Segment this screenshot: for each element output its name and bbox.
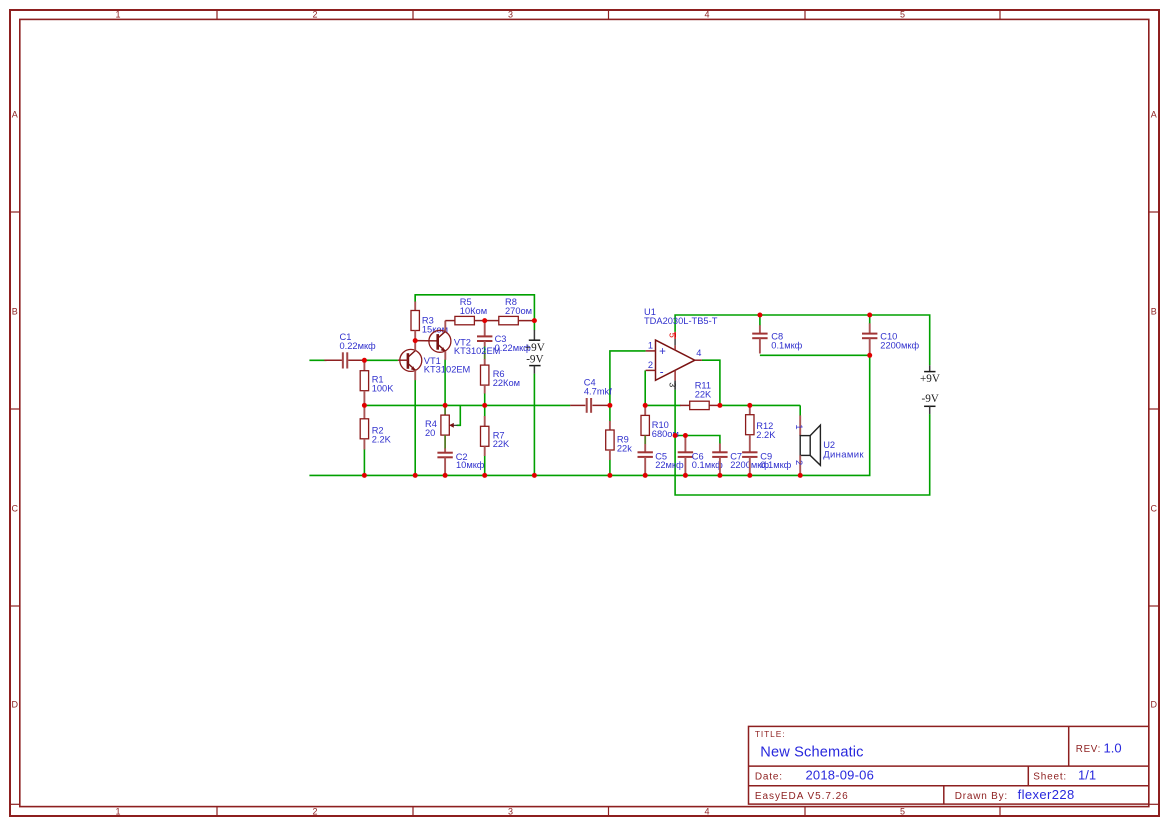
svg-text:+: +: [659, 346, 666, 358]
capacitor C2: [444, 448, 446, 452]
svg-text:2018-09-06: 2018-09-06: [806, 768, 875, 783]
wire right -9V flag down: [675, 390, 930, 495]
svg-text:0.1мкф: 0.1мкф: [760, 460, 791, 470]
wire input stub: [309, 359, 326, 361]
svg-text:2: 2: [648, 360, 653, 370]
resistor R9: [609, 421, 611, 430]
resistor R12: [749, 405, 751, 414]
capacitor C1: [324, 359, 342, 361]
wire C6 C7 top branch: [675, 436, 720, 444]
wire C10 top sliver: [869, 315, 871, 324]
svg-text:5: 5: [667, 333, 677, 338]
svg-text:flexer228: flexer228: [1018, 787, 1075, 802]
svg-text:2: 2: [312, 10, 317, 20]
svg-text:REV:: REV:: [1076, 744, 1101, 755]
svg-text:3: 3: [668, 382, 678, 387]
wire VT1 emitter down: [414, 380, 416, 476]
svg-text:C: C: [1151, 503, 1158, 513]
svg-text:3: 3: [508, 10, 513, 20]
svg-text:0.1мкф: 0.1мкф: [692, 460, 723, 470]
op-amp U1: [656, 340, 695, 380]
power flag +9V left: [533, 330, 535, 340]
svg-text:1: 1: [115, 806, 120, 816]
svg-text:1/1: 1/1: [1078, 768, 1096, 783]
wire R2 bottom: [363, 449, 365, 475]
wire R6 to mid rail: [484, 393, 486, 405]
resistor R3: [414, 295, 416, 302]
resistor R10: [644, 405, 646, 415]
svg-text:A: A: [1151, 109, 1157, 119]
resistor R5: [445, 320, 455, 322]
capacitor C5: [644, 444, 646, 452]
svg-text:1: 1: [648, 341, 653, 351]
capacitor C3: [484, 321, 486, 337]
svg-text:D: D: [11, 700, 18, 710]
svg-text:KT3102EM: KT3102EM: [424, 365, 471, 375]
wire top-right +9V rail: [675, 315, 930, 365]
svg-text:+9V: +9V: [920, 373, 940, 385]
wire mid rail left: [364, 404, 570, 406]
svg-text:2200мкф: 2200мкф: [880, 341, 919, 351]
svg-text:New Schematic: New Schematic: [760, 744, 863, 760]
svg-text:5: 5: [900, 806, 905, 816]
svg-text:100K: 100K: [372, 384, 395, 394]
resistor R1: [363, 362, 365, 371]
wire R9 to bottom rail: [609, 460, 611, 476]
svg-text:+9V: +9V: [525, 342, 545, 354]
capacitor C7: [719, 443, 721, 452]
svg-text:20: 20: [425, 428, 435, 438]
wire VT2 emitter down: [444, 360, 446, 406]
svg-text:4: 4: [704, 10, 709, 20]
svg-text:0.22мкф: 0.22мкф: [340, 341, 377, 351]
svg-text:4: 4: [704, 806, 709, 816]
wire output down to R11 node: [702, 360, 720, 405]
frame side ruler ticks: [10, 212, 1159, 804]
svg-text:1.0: 1.0: [1104, 740, 1122, 755]
svg-text:Date:: Date:: [755, 771, 783, 782]
svg-text:5: 5: [900, 10, 905, 20]
power flag +9V right: [929, 365, 931, 371]
svg-text:22K: 22K: [493, 439, 510, 449]
wire +9V flag left lead: [533, 321, 535, 331]
title block box: [749, 726, 1149, 804]
wire junction to R11 left: [645, 404, 680, 406]
svg-text:4: 4: [696, 348, 701, 358]
wire -9V flag left to bottom rail: [533, 374, 535, 476]
svg-text:Drawn By:: Drawn By:: [955, 791, 1008, 802]
svg-text:-9V: -9V: [921, 393, 938, 405]
svg-text:TDA2030L-TB5-T: TDA2030L-TB5-T: [644, 316, 718, 326]
resistor R7: [484, 416, 486, 426]
svg-text:4.7mkf: 4.7mkf: [584, 387, 612, 397]
svg-text:10Ком: 10Ком: [460, 306, 487, 316]
svg-text:1: 1: [115, 10, 120, 20]
svg-text:D: D: [1151, 700, 1158, 710]
svg-text:EasyEDA V5.7.26: EasyEDA V5.7.26: [755, 791, 849, 802]
resistor R2: [363, 405, 365, 418]
transistor VT1: [400, 349, 422, 371]
capacitor C8: [759, 325, 761, 333]
svg-text:-9V: -9V: [526, 354, 543, 366]
svg-text:2: 2: [794, 460, 804, 465]
capacitor C10: [869, 323, 871, 333]
wire VT1 collector junction to VT2 base: [415, 340, 438, 342]
capacitor C9: [742, 451, 757, 453]
wire C8 bottom to C10 bottom: [760, 354, 870, 356]
svg-text:2.2K: 2.2K: [372, 434, 392, 444]
svg-text:22K: 22K: [695, 390, 712, 400]
svg-text:22Ком: 22Ком: [493, 378, 520, 388]
svg-text:270ом: 270ом: [505, 306, 532, 316]
capacitor C6: [684, 436, 686, 453]
frame top ruler ticks: [217, 10, 1000, 816]
svg-text:Sheet:: Sheet:: [1033, 771, 1067, 782]
svg-text:1: 1: [794, 424, 804, 429]
wire R7 top: [484, 405, 486, 416]
wire R4 wiper stub: [457, 405, 461, 425]
resistor R11: [680, 404, 690, 406]
svg-text:2.2K: 2.2K: [756, 430, 776, 440]
svg-text:0.1мкф: 0.1мкф: [771, 341, 802, 351]
wire C3 to R6: [484, 346, 486, 352]
svg-text:KT3102EM: KT3102EM: [454, 346, 501, 356]
svg-text:22k: 22k: [617, 443, 632, 453]
svg-text:22мкф: 22мкф: [655, 460, 684, 470]
svg-text:B: B: [12, 306, 18, 316]
wire C4 junction down to R9: [609, 405, 611, 421]
capacitor C4: [570, 404, 585, 406]
svg-text:2: 2: [312, 806, 317, 816]
resistor R8: [485, 320, 499, 322]
resistor R6: [484, 359, 486, 365]
wire top-left +9V rail: [415, 295, 534, 321]
svg-text:TITLE:: TITLE:: [755, 729, 786, 739]
svg-text:Динамик: Динамик: [823, 449, 864, 460]
wire R11 right to speaker branch: [720, 404, 800, 406]
svg-text:10мкф: 10мкф: [456, 460, 485, 470]
transistor VT2: [429, 330, 451, 352]
svg-text:C: C: [11, 503, 18, 513]
svg-text:-: -: [660, 366, 664, 378]
wire speaker pin1 branch: [799, 405, 801, 415]
potentiometer R4: [444, 405, 446, 415]
wire C8 top sliver: [759, 315, 761, 326]
svg-text:3: 3: [508, 806, 513, 816]
speaker U2: [799, 415, 801, 435]
svg-text:A: A: [12, 109, 18, 119]
wire C4 junction up to op-amp pin 1: [610, 351, 646, 406]
wire op-amp pin 2 down: [644, 370, 646, 405]
wire R7 to bottom rail: [484, 456, 486, 476]
wire junction to VT1 base: [364, 359, 398, 361]
wire bottom rail: [309, 355, 869, 475]
junction dots: [362, 313, 872, 478]
svg-text:B: B: [1151, 306, 1157, 316]
